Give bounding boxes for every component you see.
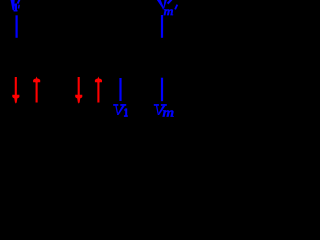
- svg-text:m: m: [162, 106, 174, 117]
- svg-text:m: m: [164, 5, 174, 18]
